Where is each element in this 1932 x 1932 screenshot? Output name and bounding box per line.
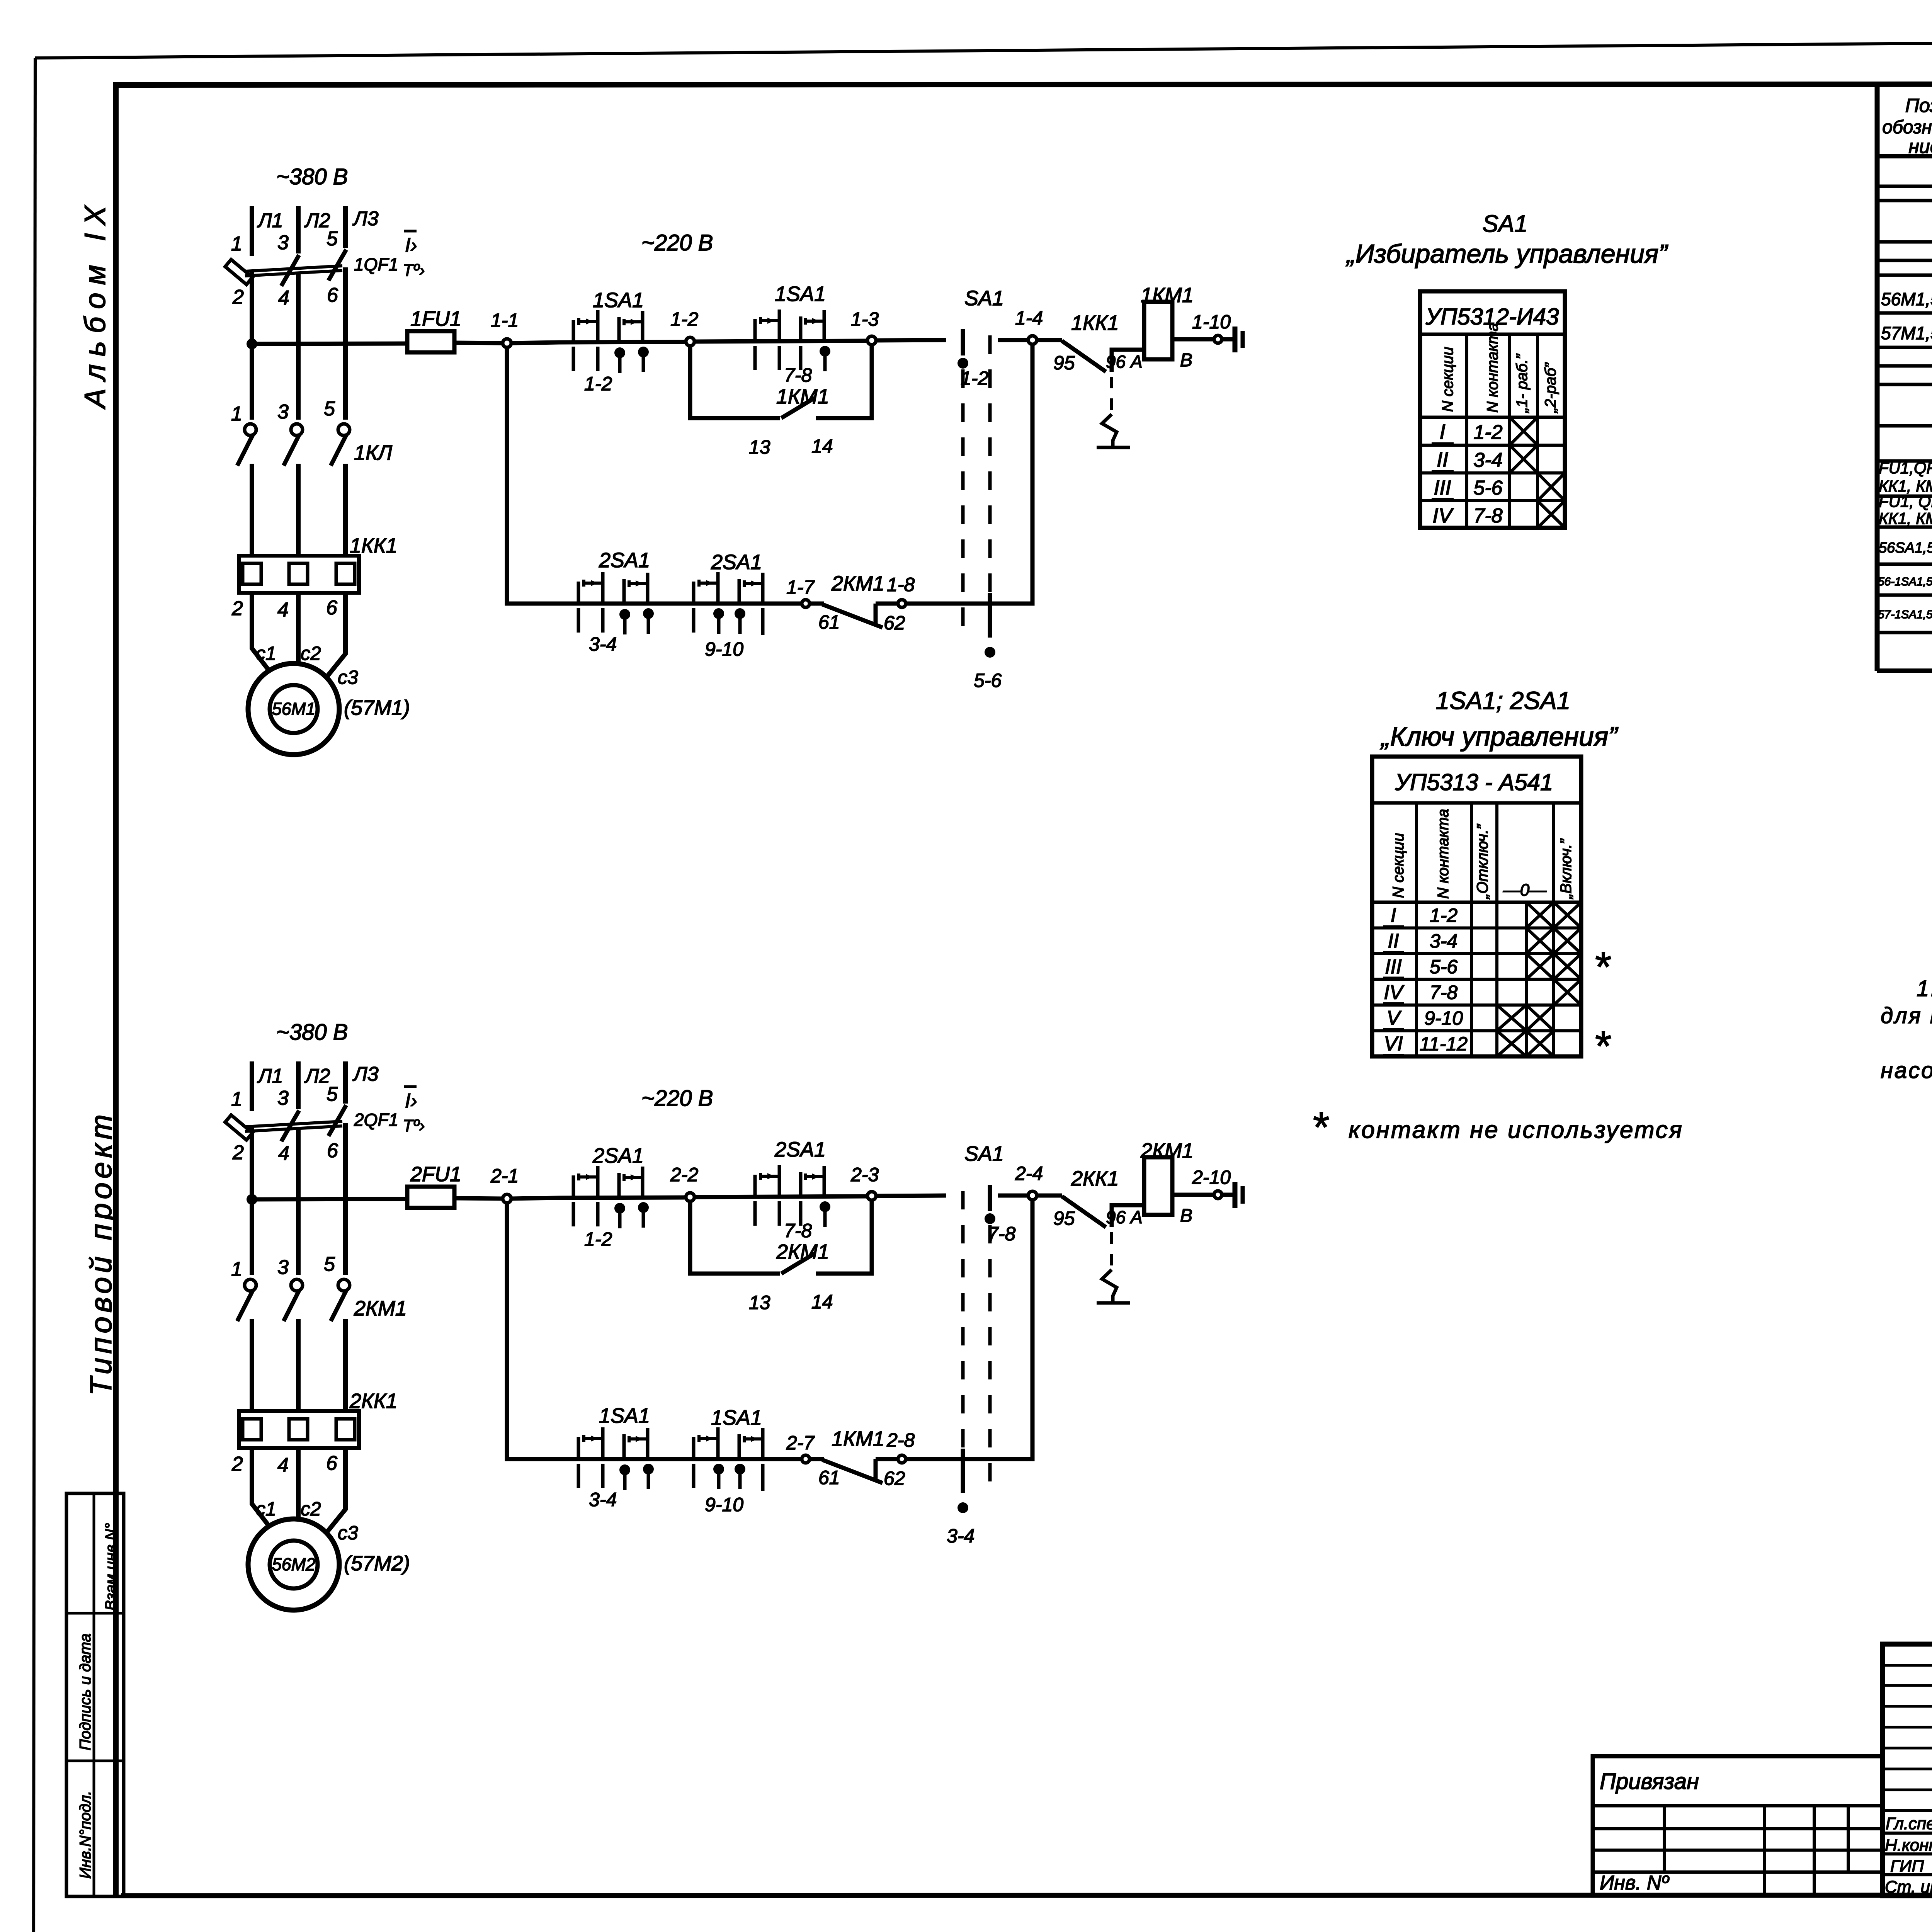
svg-text:II: II [1388, 930, 1399, 952]
svg-text:4: 4 [278, 287, 289, 309]
lower circuit: auxiliary contact 2КМ1 13-14 [690, 1201, 780, 1274]
svg-text:1SA1: 1SA1 [593, 289, 644, 312]
svg-text:с3: с3 [338, 667, 358, 688]
svg-text:(57М1): (57М1) [344, 696, 410, 719]
svg-text:2-4: 2-4 [1015, 1163, 1043, 1184]
svg-text:2КМ1: 2КМ1 [776, 1240, 829, 1264]
upper circuit: contactor coil 1КМ1 [1144, 302, 1172, 359]
svg-text:Ст. инж.: Ст. инж. [1885, 1878, 1932, 1896]
lower circuit: node 2-2 [686, 1193, 694, 1201]
svg-text:Типовой проект: Типовой проект [84, 1111, 118, 1396]
lower circuit: node 2-10 [1214, 1191, 1222, 1199]
svg-text:2КК1: 2КК1 [349, 1389, 398, 1413]
svg-text:1-4: 1-4 [1015, 307, 1043, 329]
svg-text:1КМ1: 1КМ1 [776, 385, 829, 408]
lower circuit: node 2-8 [898, 1455, 906, 1463]
svg-text:В: В [1180, 350, 1192, 371]
lower circuit: switch contacts 2SA1 (7-8) [753, 1175, 757, 1196]
svg-text:2SA1: 2SA1 [711, 551, 762, 574]
svg-text:3-4: 3-4 [1430, 930, 1458, 952]
svg-text:2: 2 [232, 286, 244, 308]
svg-text:6: 6 [326, 1452, 337, 1475]
lower circuit: wire tap to fuse [252, 1199, 407, 1199]
svg-text:1-2: 1-2 [584, 373, 612, 395]
upper circuit: heater hook [1102, 414, 1117, 447]
lower circuit: node 2-1 [503, 1194, 511, 1203]
svg-text:5: 5 [324, 1253, 335, 1276]
lower circuit: selector contact row1 [988, 1185, 992, 1211]
svg-text:13: 13 [749, 436, 770, 458]
upper circuit: wire selector to node 1-4 [998, 338, 1028, 342]
svg-text:2: 2 [232, 1141, 244, 1164]
svg-text:II: II [1437, 448, 1448, 471]
upper circuit: contactor contacts 1КЛ [245, 424, 256, 435]
svg-text:14: 14 [811, 1291, 833, 1313]
svg-text:11-12: 11-12 [1420, 1033, 1468, 1055]
svg-text:7-8: 7-8 [1473, 505, 1502, 527]
key table UP5313 grid [1372, 757, 1581, 1056]
svg-text:1КМ1: 1КМ1 [1141, 284, 1194, 307]
upper circuit: node 1-7 [802, 600, 810, 607]
lower circuit: switch contacts 1SA1 (9-10) [692, 1437, 696, 1458]
svg-text:„1- раб.”: „1- раб.” [1514, 354, 1531, 413]
svg-text:с2: с2 [301, 1498, 321, 1520]
upper circuit: switch contacts 1SA1 (1-2) [572, 320, 575, 341]
svg-text:SA1: SA1 [964, 1142, 1004, 1165]
svg-text:57М1,57М2: 57М1,57М2 [1881, 323, 1932, 343]
upper circuit: motor 56М1 [248, 663, 339, 755]
svg-text:Л3: Л3 [352, 1063, 379, 1085]
svg-text:1-1: 1-1 [491, 310, 519, 331]
svg-text:1-2: 1-2 [1473, 421, 1502, 444]
svg-text:Л1: Л1 [257, 1065, 283, 1087]
svg-text:3: 3 [277, 231, 289, 254]
svg-text:5-6: 5-6 [1430, 956, 1458, 978]
svg-text:„2-раб”: „2-раб” [1542, 362, 1559, 413]
svg-text:2FU1: 2FU1 [410, 1163, 461, 1186]
lower circuit: switch contacts 1SA1 (3-4) [577, 1437, 580, 1458]
svg-text:2QF1: 2QF1 [354, 1110, 398, 1130]
svg-text:2: 2 [231, 597, 243, 620]
svg-text:Поз.: Поз. [1905, 95, 1932, 116]
svg-text:Л3: Л3 [352, 207, 379, 230]
svg-text:„Отключ.”: „Отключ.” [1474, 824, 1491, 900]
upper circuit: phase feeder Л2 [296, 206, 301, 253]
svg-text:2-1: 2-1 [490, 1165, 519, 1187]
lower circuit: switch contacts 2SA1 (1-2) [572, 1175, 575, 1197]
svg-text:„Избиратель управления”: „Избиратель управления” [1345, 239, 1668, 269]
lower circuit: wire coil to ground [1172, 1193, 1214, 1197]
svg-text:Взам.инв.N°: Взам.инв.N° [102, 1523, 119, 1611]
svg-text:56SA1,57SA1: 56SA1,57SA1 [1879, 540, 1932, 556]
svg-text:1-2: 1-2 [670, 308, 698, 330]
svg-text:61: 61 [818, 611, 840, 633]
svg-text:5-6: 5-6 [974, 670, 1002, 691]
svg-text:N контакта: N контакта [1435, 809, 1452, 899]
upper circuit: node 1-4 [1028, 336, 1037, 344]
svg-text:7-8: 7-8 [784, 364, 812, 386]
svg-text:Подпись и дата: Подпись и дата [77, 1633, 94, 1750]
svg-text:IV: IV [1384, 981, 1404, 1004]
svg-text:Альбом IX: Альбом IX [79, 198, 112, 410]
svg-text:56-1SA1,56-2SA1: 56-1SA1,56-2SA1 [1878, 575, 1932, 588]
svg-text:„Включ.”: „Включ.” [1558, 838, 1575, 900]
upper circuit: node 1-1 [503, 339, 511, 347]
svg-text:6: 6 [327, 284, 338, 306]
svg-text:ГИП: ГИП [1890, 1857, 1924, 1876]
svg-text:7-8: 7-8 [784, 1220, 812, 1242]
svg-text:VI: VI [1384, 1033, 1403, 1055]
svg-text:УП5313 - А541: УП5313 - А541 [1395, 769, 1553, 795]
svg-text:14: 14 [811, 435, 833, 457]
upper circuit: phase feeder Л1 [250, 206, 254, 256]
upper circuit: switch contacts 2SA1 (9-10) [692, 582, 696, 603]
upper circuit: wire through switch 1SA1 [559, 342, 686, 342]
svg-text:1-2: 1-2 [1430, 905, 1458, 926]
svg-text:1: 1 [231, 1258, 242, 1281]
svg-text:1QF1: 1QF1 [354, 254, 398, 274]
svg-text:1: 1 [231, 233, 242, 255]
lower circuit: motor lead c3 [326, 1448, 345, 1534]
upper circuit: thermal relay 1КК1 [239, 556, 359, 593]
svg-text:2SA1: 2SA1 [774, 1138, 826, 1161]
svg-text:5: 5 [324, 398, 335, 420]
svg-text:с2: с2 [301, 643, 321, 664]
upper circuit: switch contacts 2SA1 (3-4) [577, 582, 580, 603]
lower circuit: node 2-3 [867, 1192, 876, 1200]
svg-text:2-8: 2-8 [886, 1429, 915, 1451]
svg-text:~220 В: ~220 В [641, 1086, 713, 1111]
upper circuit: wire to selector [876, 340, 946, 340]
svg-text:для насосов 57-1, 57-2 схем: для насосов 57-1, 57-2 схема аналогична. [1881, 1003, 1932, 1028]
lower circuit: wire through switch 2SA1 [559, 1197, 686, 1198]
lower circuit: motor lead c2 [296, 1448, 301, 1521]
svg-text:96 А: 96 А [1106, 352, 1143, 372]
svg-text:Инв.N°подл.: Инв.N°подл. [77, 1791, 94, 1879]
lower circuit: heater hook [1102, 1270, 1117, 1302]
svg-text:9-10: 9-10 [1424, 1007, 1463, 1029]
svg-text:1SA1: 1SA1 [711, 1406, 762, 1429]
lower circuit: ground [1222, 1193, 1233, 1197]
svg-text:Л1: Л1 [257, 209, 283, 232]
upper circuit: NC contact 2КМ1 61-62 [810, 602, 824, 606]
upper circuit: circuit breaker 1QF1 [225, 260, 253, 285]
svg-text:62: 62 [884, 612, 905, 634]
svg-text:2-10: 2-10 [1192, 1167, 1231, 1188]
svg-text:2-2: 2-2 [670, 1164, 698, 1185]
svg-text:56М2: 56М2 [272, 1554, 316, 1574]
svg-text:„Ключ управления”: „Ключ управления” [1380, 721, 1618, 752]
svg-text:6: 6 [326, 597, 337, 619]
svg-text:с1: с1 [256, 1498, 276, 1520]
svg-text:13: 13 [749, 1292, 770, 1313]
svg-text:N контакта: N контакта [1484, 323, 1501, 413]
svg-text:I: I [1439, 420, 1445, 444]
svg-text:1: 1 [231, 403, 242, 425]
upper circuit: phase feeder Л3 [343, 206, 348, 248]
svg-text:1-3: 1-3 [851, 308, 879, 330]
svg-text:IV: IV [1432, 504, 1454, 527]
svg-text:96 А: 96 А [1106, 1207, 1143, 1227]
svg-text:III: III [1385, 956, 1401, 978]
svg-text:7-8: 7-8 [1430, 982, 1458, 1003]
svg-text:4: 4 [277, 599, 289, 621]
svg-text:61: 61 [818, 1467, 840, 1488]
svg-text:2SA1: 2SA1 [592, 1144, 644, 1167]
svg-text:57-1SA1,57-2SA1: 57-1SA1,57-2SA1 [1878, 608, 1932, 621]
upper circuit: heater element of 1КК1 [1110, 377, 1113, 414]
svg-text:~380 В: ~380 В [276, 1020, 348, 1045]
lower circuit: junction on Л1 [247, 1194, 257, 1205]
lower circuit: phase feeder Л2 [296, 1061, 301, 1109]
svg-text:2КМ1: 2КМ1 [354, 1297, 407, 1320]
svg-text:Н.контр.: Н.контр. [1885, 1836, 1932, 1855]
lower circuit: circuit breaker 2QF1 [225, 1115, 253, 1140]
lower circuit: wire selector to node 2-4 [998, 1194, 1028, 1198]
svg-text:КК1, КМ1: КК1, КМ1 [1879, 509, 1932, 527]
svg-text:контакт не используется: контакт не используется [1349, 1117, 1684, 1143]
svg-text:В: В [1180, 1206, 1192, 1226]
svg-text:*: * [1595, 943, 1612, 991]
svg-text:*: * [1595, 1022, 1612, 1070]
upper circuit: selector contact row2 [988, 593, 992, 638]
svg-text:FU1,QF1,: FU1,QF1, [1879, 459, 1932, 477]
svg-text:1-2: 1-2 [961, 367, 988, 389]
lower circuit: motor lead c1 [252, 1448, 273, 1531]
svg-text:3: 3 [277, 1087, 289, 1109]
svg-text:1-7: 1-7 [786, 577, 815, 598]
binding margin stamp cells [66, 1493, 124, 1896]
svg-text:1FU1: 1FU1 [410, 307, 461, 330]
lower circuit: thermal contact 2КК1 95-96 [1037, 1194, 1062, 1198]
svg-text:3-4: 3-4 [1473, 449, 1502, 471]
switch table UP5312 grid [1420, 291, 1565, 528]
svg-text:SA1: SA1 [964, 287, 1004, 310]
svg-text:2-3: 2-3 [850, 1164, 879, 1185]
upper circuit: motor lead c3 [326, 593, 345, 678]
svg-text:1: 1 [231, 1088, 242, 1111]
upper circuit: selector SA1 dashed link 2 [988, 335, 992, 634]
svg-text:3: 3 [277, 1256, 289, 1279]
svg-text:с1: с1 [256, 643, 276, 664]
lower circuit: row2 wire [559, 1457, 801, 1461]
svg-text:2КМ1: 2КМ1 [1140, 1139, 1194, 1162]
upper circuit: node 1-2 [686, 337, 694, 346]
svg-text:62: 62 [884, 1468, 905, 1489]
svg-text:с3: с3 [338, 1522, 358, 1544]
svg-text:3-4: 3-4 [947, 1525, 975, 1547]
svg-text:7-8: 7-8 [988, 1223, 1015, 1245]
upper circuit: selector SA1 dashed link 1 [961, 335, 965, 634]
svg-text:1SA1; 2SA1: 1SA1; 2SA1 [1436, 687, 1571, 714]
svg-text:—0—: —0— [1503, 881, 1547, 900]
lower circuit: thermal relay 2КК1 [239, 1411, 359, 1448]
lower circuit: wire node 2-4 down [938, 1200, 1032, 1459]
upper circuit: fuse 1FU1 [407, 331, 454, 352]
svg-text:1КК1: 1КК1 [350, 534, 398, 557]
svg-text:1-8: 1-8 [887, 574, 915, 595]
lower circuit: selector SA1 dashed link 2 [988, 1191, 992, 1489]
svg-text:N секции: N секции [1439, 347, 1456, 412]
svg-text:1SA1: 1SA1 [599, 1404, 650, 1427]
svg-text:(57М2): (57М2) [344, 1552, 410, 1575]
svg-text:3: 3 [277, 401, 289, 423]
upper circuit: node 1-8 [898, 600, 906, 607]
upper circuit: control wire segment A [511, 342, 559, 343]
upper circuit: wire tap to fuse [252, 344, 407, 344]
svg-text:1-10: 1-10 [1192, 311, 1231, 333]
lower circuit: motor 56М2 [248, 1519, 339, 1610]
svg-text:ние: ние [1908, 136, 1932, 157]
upper circuit: junction on Л1 [247, 338, 257, 349]
upper circuit: wire node 1-4 down [938, 344, 1032, 604]
svg-text:III: III [1434, 476, 1451, 499]
lower circuit: phase feeder Л1 [250, 1061, 254, 1111]
upper circuit: motor lead c1 [252, 593, 273, 675]
lower circuit: wire to node 2-3 [694, 1196, 867, 1197]
upper circuit: node 1-3 [867, 336, 876, 345]
lower circuit: fuse 2FU1 [407, 1187, 454, 1208]
svg-text:6: 6 [327, 1139, 338, 1162]
lower circuit: NC contact 1КМ1 61-62 [810, 1457, 824, 1461]
upper circuit: switch contacts 1SA1 (7-8) [753, 319, 757, 340]
lower circuit: control wire segment A [511, 1198, 559, 1199]
lower circuit: node 2-4 [1028, 1191, 1037, 1200]
svg-text:*: * [1313, 1104, 1330, 1151]
svg-text:56М1: 56М1 [272, 699, 316, 719]
svg-text:3-4: 3-4 [589, 633, 617, 655]
svg-text:~380 В: ~380 В [276, 164, 348, 189]
upper circuit: row2 wire [559, 602, 801, 606]
svg-text:95: 95 [1053, 352, 1075, 374]
svg-text:1КМ1: 1КМ1 [832, 1427, 884, 1451]
upper circuit: wire coil to ground [1172, 337, 1214, 342]
svg-text:4: 4 [277, 1454, 289, 1476]
upper circuit: motor lead c2 [296, 593, 301, 665]
switch table UP5312 X marks [1510, 417, 1537, 445]
lower circuit: heater element of 2КК1 [1110, 1232, 1113, 1270]
upper circuit: wire node 1-1 down [507, 347, 559, 604]
svg-text:2: 2 [231, 1453, 243, 1475]
svg-text:Тº›: Тº› [403, 261, 425, 280]
svg-text:I: I [1391, 904, 1396, 927]
svg-text:насосов: насосов [1881, 1058, 1932, 1083]
svg-text:2-7: 2-7 [786, 1432, 815, 1454]
svg-text:56М1,56М2: 56М1,56М2 [1881, 289, 1932, 309]
svg-text:I›: I› [405, 234, 417, 257]
lower circuit: phase feeder Л3 [343, 1061, 348, 1104]
upper circuit: node 1-10 [1214, 335, 1222, 343]
svg-text:1КК1: 1КК1 [1071, 311, 1119, 335]
svg-text:2КМ1: 2КМ1 [831, 572, 884, 595]
svg-text:Привязан: Привязан [1600, 1769, 1699, 1794]
svg-text:95: 95 [1053, 1207, 1075, 1229]
svg-text:2SA1: 2SA1 [599, 549, 650, 572]
lower circuit: selector contact row2 [961, 1449, 965, 1493]
svg-text:I›: I› [405, 1090, 417, 1112]
svg-text:1SA1: 1SA1 [775, 282, 826, 306]
svg-text:1. Схема выполнена на два: 1. Схема выполнена на два насоса (≠ 56-1… [1917, 976, 1932, 1001]
svg-text:SA1: SA1 [1482, 211, 1527, 237]
svg-text:N секции: N секции [1390, 833, 1407, 898]
title block frame [1883, 1644, 1932, 1896]
svg-text:Гл.спец.: Гл.спец. [1886, 1814, 1932, 1833]
annex table Привязан [1593, 1756, 1883, 1896]
svg-text:1-2: 1-2 [584, 1228, 612, 1250]
lower circuit: node 2-7 [802, 1455, 810, 1463]
svg-text:5: 5 [327, 228, 338, 250]
lower circuit: contactor contacts 2КМ1 [245, 1279, 256, 1291]
lower circuit: wire to selector [876, 1196, 946, 1196]
svg-text:FU1, QF1: FU1, QF1 [1879, 492, 1932, 510]
lower circuit: wire node 2-1 down [507, 1202, 559, 1459]
svg-text:9-10: 9-10 [705, 638, 743, 660]
svg-text:5-6: 5-6 [1473, 477, 1502, 499]
svg-text:обозначе-: обозначе- [1882, 117, 1932, 138]
svg-text:2КК1: 2КК1 [1071, 1167, 1119, 1190]
upper circuit: wire to node 1-3 [694, 341, 867, 342]
svg-text:Инв. Nº: Инв. Nº [1600, 1872, 1669, 1894]
upper circuit: auxiliary contact 1КМ1 13-14 [690, 346, 780, 418]
svg-text:4: 4 [278, 1142, 289, 1165]
parts list table grid [1875, 84, 1880, 671]
svg-text:V: V [1387, 1007, 1402, 1029]
svg-text:~220 В: ~220 В [641, 230, 713, 255]
title block signature grid [1883, 1664, 1932, 1667]
svg-text:Тº›: Тº› [403, 1116, 425, 1135]
lower circuit: contactor coil 2КМ1 [1144, 1157, 1172, 1215]
svg-text:9-10: 9-10 [705, 1494, 743, 1515]
upper circuit: selector contact row1 [961, 329, 965, 355]
svg-text:5: 5 [327, 1083, 338, 1105]
lower circuit: selector SA1 dashed link 1 [961, 1191, 965, 1489]
upper circuit: thermal contact 1КК1 95-96 [1037, 338, 1062, 342]
svg-text:3-4: 3-4 [589, 1489, 617, 1510]
svg-text:1КЛ: 1КЛ [354, 441, 393, 464]
upper circuit: ground [1222, 337, 1233, 342]
key table UP5313 X marks [1526, 902, 1554, 928]
